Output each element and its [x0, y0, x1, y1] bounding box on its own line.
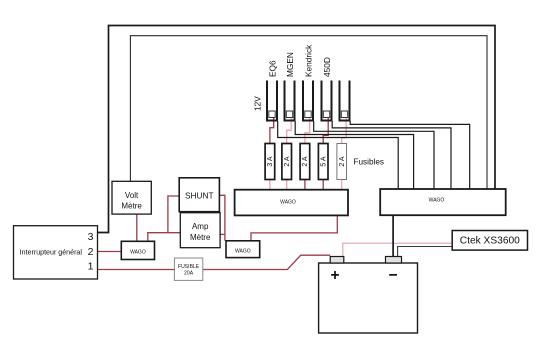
connector socket 4 (450D) [321, 81, 333, 122]
fuse: FUSIBLE 20A [174, 258, 202, 280]
switch: Interrupteur general [14, 226, 98, 279]
junction block: left WAGO [121, 241, 154, 259]
svg-text:WAGO: WAGO [235, 249, 251, 255]
meter: Amp Metre [180, 213, 220, 248]
meter: Volt Metre [112, 181, 151, 214]
wire: red 12V plug lead connector 5 to fuse 2A [342, 118, 347, 144]
connector socket 3 (Kendrick) [302, 81, 314, 122]
wire: red 12V plug lead connector 4 to fuse 5A [323, 118, 328, 144]
svg-text:WAGO: WAGO [280, 200, 296, 206]
wire: black from Ctek charger minus to battery - terminal [398, 247, 453, 257]
junction block: middle WAGO (fuse output bus) [235, 190, 348, 216]
svg-text:2 A: 2 A [302, 156, 309, 166]
svg-text:20A: 20A [184, 271, 194, 277]
wire: black ground bus from connector 5 to right WAGO [350, 121, 470, 189]
wire: black ground bus from connector 2 to right WAGO [295, 121, 413, 189]
svg-text:Ctek XS3600: Ctek XS3600 [460, 236, 520, 247]
svg-text:Volt: Volt [125, 191, 139, 200]
battery [319, 257, 418, 334]
fuse F2 2A [282, 144, 292, 180]
battery - terminal [386, 257, 402, 264]
wire: red from left WAGO top to SHUNT left and Amp Metre left [148, 233, 181, 242]
wire: black from right WAGO bottom to battery - terminal [392, 215, 394, 256]
svg-text:WAGO: WAGO [429, 198, 445, 204]
svg-text:12V: 12V [253, 96, 263, 111]
wire: red fuse 5A bottom to middle WAGO [322, 180, 324, 190]
wire: red from Volt Metre bottom to left WAGO top [136, 214, 138, 241]
fuse F4 5A [318, 144, 328, 180]
shunt U1 [179, 178, 219, 212]
svg-text:−: − [389, 267, 398, 284]
fuse F5 2A [337, 144, 347, 180]
svg-text:Mètre: Mètre [121, 202, 142, 211]
wire: red from Amp Metre right to mid WAGO drop [220, 233, 225, 235]
wire: red fuse 3A bottom to middle WAGO [269, 180, 271, 190]
wire: black ground bus from connector 4 to right WAGO [332, 121, 451, 189]
wire: outer ground loop from interrupteur pin 3 to right WAGO bus [98, 26, 496, 233]
svg-text:SHUNT: SHUNT [185, 191, 214, 201]
battery + terminal [330, 257, 344, 264]
wire: inner loop from Volt Metre top to right WAGO bus [130, 36, 487, 189]
fuse F3 2A [300, 144, 310, 180]
svg-text:Interrupteur général: Interrupteur général [20, 249, 83, 257]
svg-text:2: 2 [88, 246, 94, 258]
svg-text:Kendrick: Kendrick [304, 44, 314, 77]
svg-text:3: 3 [88, 231, 94, 243]
svg-text:+: + [331, 267, 340, 284]
svg-text:Fusibles: Fusibles [354, 158, 385, 167]
wire: red from interrupteur pin 2 to left WAGO [98, 251, 122, 253]
svg-text:EQ6: EQ6 [268, 60, 278, 77]
svg-text:WAGO: WAGO [130, 250, 146, 256]
wire: black ground bus from connector 3 to right WAGO [314, 121, 434, 189]
wire: red from FUSIBLE 20A to battery + terminal [203, 255, 330, 269]
connector socket 1 (EQ6) [266, 81, 278, 122]
svg-text:MGEN: MGEN [285, 52, 295, 77]
connector socket 5 (spare) [339, 81, 351, 122]
junction block: right WAGO (ground bus) [380, 189, 506, 215]
svg-text:2 A: 2 A [284, 156, 291, 166]
svg-text:FUSIBLE: FUSIBLE [178, 264, 200, 270]
wire: red fuse 2A bottom to middle WAGO [341, 180, 343, 190]
connector socket 2 (MGEN) [284, 81, 296, 122]
fuse F1 3A [265, 144, 275, 180]
svg-text:1: 1 [88, 261, 94, 273]
wire: black ground bus from connector 1 to right WAGO [278, 121, 399, 189]
junction block: mid WAGO [226, 241, 260, 258]
charger: Ctek XS3600 [452, 231, 527, 251]
svg-text:5 A: 5 A [321, 156, 328, 166]
wire: red from interrupteur pin 1 to FUSIBLE 20A [98, 269, 175, 271]
wire: pink from Ctek charger plus to battery + terminal [343, 243, 452, 256]
svg-text:Amp: Amp [192, 222, 209, 231]
wire: red from mid WAGO top to middle WAGO bus bottom [251, 215, 337, 240]
wire: red 12V plug lead connector 1 to fuse 3A [270, 118, 274, 144]
wire: red fuse 2A bottom to middle WAGO [286, 180, 288, 190]
svg-text:Mètre: Mètre [190, 233, 211, 242]
svg-text:2 A: 2 A [339, 156, 346, 166]
wire: red 12V plug lead connector 3 to fuse 2A [305, 118, 310, 144]
wire: red from SHUNT right down to mid WAGO top [219, 195, 225, 241]
svg-text:450D: 450D [322, 57, 332, 77]
wire: red 12V plug lead connector 2 to fuse 2A [287, 118, 292, 144]
wire: red fuse 2A bottom to middle WAGO [304, 180, 306, 190]
svg-text:3 A: 3 A [267, 156, 274, 166]
